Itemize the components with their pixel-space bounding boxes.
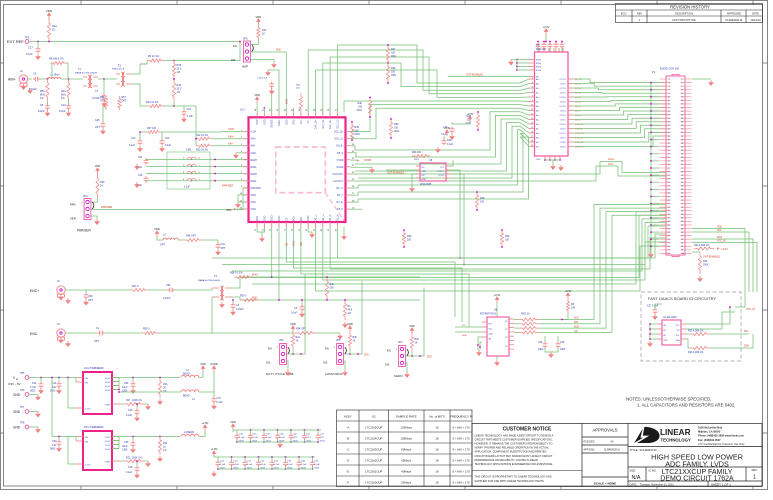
U3 input pins <box>529 78 535 80</box>
svg-text:JP3: JP3 <box>279 338 284 342</box>
resistor R54 OPT <box>296 331 316 334</box>
resistor R9 <box>140 63 147 65</box>
resistor R24 <box>412 154 430 157</box>
svg-text:SD1: SD1 <box>364 354 369 357</box>
svg-text:+3.3V: +3.3V <box>543 25 550 29</box>
svg-text:CF+: CF+ <box>300 119 303 124</box>
svg-text:EN: EN <box>325 347 329 351</box>
svg-text:1: 1 <box>241 45 242 47</box>
inductor L3 BEAD <box>181 434 199 436</box>
svg-text:GND: GND <box>307 215 310 221</box>
P1 top right ground <box>692 78 711 80</box>
net +1.8V from L3 <box>199 431 205 437</box>
svg-text:EN78: EN78 <box>536 70 542 72</box>
net VDD lvds jumper <box>348 326 351 332</box>
U8 address pins to ground <box>478 337 482 350</box>
resistor R1b 1K <box>257 25 260 40</box>
svg-text:0.01uF: 0.01uF <box>29 88 37 91</box>
svg-text:EN12: EN12 <box>536 60 542 62</box>
capacitor C10 <box>68 101 70 104</box>
connector J1 AIN+ <box>19 75 27 83</box>
jumper JP2 PAR SER <box>84 199 91 220</box>
svg-text:SCK: SCK <box>574 317 579 320</box>
ground R1b <box>159 399 161 401</box>
svg-text:0.01uF: 0.01uF <box>163 297 171 300</box>
svg-text:OPT: OPT <box>100 100 105 103</box>
svg-text:97: 97 <box>668 250 670 252</box>
svg-text:40: 40 <box>681 146 683 148</box>
ground T3 center tap <box>221 302 223 304</box>
resistor R1b <box>158 378 161 399</box>
svg-text:U3: U3 <box>536 43 540 47</box>
resistor R59 on ENC- line <box>241 298 259 301</box>
ground J1 <box>23 84 25 86</box>
svg-text:CF-: CF- <box>307 119 310 123</box>
wires REFH REFL into U2 pins 5-8 <box>146 158 249 160</box>
svg-text:A7-: A7- <box>536 146 539 149</box>
svg-text:FAST DAACS BOARD ID CIRCUITRY: FAST DAACS BOARD ID CIRCUITRY <box>648 296 716 301</box>
ground R26 <box>699 276 701 278</box>
svg-text:SIZE: SIZE <box>630 469 636 473</box>
svg-text:38: 38 <box>681 143 683 145</box>
assembly options table <box>337 410 473 487</box>
wire T1 secondary <box>98 78 117 80</box>
ground C7 <box>103 101 105 103</box>
ground caps C36b C39 <box>545 348 551 352</box>
svg-text:70: 70 <box>681 200 683 202</box>
svg-text:D4_5-: D4_5- <box>337 208 344 211</box>
svg-text:OUT3+: OUT3+ <box>559 97 566 99</box>
svg-text:1206: 1206 <box>122 449 128 452</box>
svg-text:OUT1-: OUT1- <box>560 84 566 86</box>
capacitor C60 OPT <box>65 289 80 291</box>
svg-text:OUT2-: OUT2- <box>560 93 566 95</box>
svg-text:42: 42 <box>681 150 683 152</box>
svg-text:R43 86.6 1%: R43 86.6 1% <box>49 58 64 61</box>
svg-text:100K: 100K <box>703 264 709 267</box>
wire U2 top bus <box>263 108 265 112</box>
ground C3 <box>301 312 303 314</box>
net +3.3V above U8 <box>495 297 498 303</box>
svg-text:A1-: A1- <box>536 92 539 95</box>
svg-text:1. ALL CAPACITORS AND RESISTO: 1. ALL CAPACITORS AND RESISTORS ARE 0402… <box>637 403 735 408</box>
svg-text:0201: 0201 <box>357 109 363 112</box>
svg-text:VIN: VIN <box>85 442 89 444</box>
svg-text:5 < AIN < 170: 5 < AIN < 170 <box>452 459 470 463</box>
svg-text:VDD: VDD <box>290 322 296 326</box>
svg-text:5 < AIN < 170: 5 < AIN < 170 <box>452 470 470 474</box>
svg-text:CLKOUT-: CLKOUT- <box>333 180 344 183</box>
svg-text:DESCRIPTION: DESCRIPTION <box>675 12 693 16</box>
svg-text:GND: GND <box>251 194 257 197</box>
wire EXT REF rail <box>29 41 240 43</box>
capacitor C54 <box>131 382 136 389</box>
svg-text:Fax: (408)434-0507: Fax: (408)434-0507 <box>698 438 721 442</box>
svg-text:C19 2.2uF: C19 2.2uF <box>257 78 268 80</box>
svg-text:-D: -D <box>346 459 349 463</box>
resistor R2a <box>694 247 714 250</box>
wire U3 to P1 bus <box>574 79 667 83</box>
capacitor C13 <box>161 132 163 139</box>
ground U2 bottom right <box>343 227 345 234</box>
svg-text:HOWEVER, IT REMAINS THE CUSTOM: HOWEVER, IT REMAINS THE CUSTOMER'S RESPO… <box>475 442 553 446</box>
svg-text:VOUT: VOUT <box>105 378 112 380</box>
svg-text:FIN1108: FIN1108 <box>536 47 546 51</box>
wire JP5 pin2 SD0 to U2 SDO pin <box>250 52 286 112</box>
svg-text:0.1uF: 0.1uF <box>291 312 298 315</box>
svg-text:VOUT: VOUT <box>105 449 112 451</box>
svg-text:Tuesday, November 01, 2011: Tuesday, November 01, 2011 <box>640 482 674 486</box>
Linear Technology logo <box>634 427 659 443</box>
svg-text:0603: 0603 <box>30 390 36 393</box>
svg-text:9: 9 <box>532 100 533 102</box>
svg-text:60: 60 <box>681 182 683 184</box>
ground U2 bottom pin 20 <box>308 227 312 232</box>
svg-text:OPT: OPT <box>160 244 165 247</box>
U3 top pins <box>538 48 540 52</box>
svg-text:1K: 1K <box>52 28 55 32</box>
svg-text:29: 29 <box>668 129 670 131</box>
svg-text:VREF: VREF <box>278 119 281 126</box>
svg-text:D8_9+: D8_9+ <box>336 145 344 148</box>
svg-text:AIN+: AIN+ <box>251 138 257 141</box>
svg-text:7: 7 <box>669 89 670 91</box>
svg-text:R22: R22 <box>126 457 131 460</box>
svg-text:SDI: SDI <box>574 321 578 324</box>
svg-text:GND: GND <box>13 393 21 397</box>
svg-text:23: 23 <box>668 118 670 120</box>
svg-text:LTC2163CUP: LTC2163CUP <box>365 448 382 452</box>
svg-text:R37 100: R37 100 <box>147 127 157 130</box>
capacitor C5b <box>131 441 136 448</box>
capacitor C24 <box>39 382 44 389</box>
wire AIN- into U2 pin 3 <box>212 145 249 147</box>
svg-text:REVISION HISTORY: REVISION HISTORY <box>670 5 710 10</box>
svg-text:VIN: VIN <box>85 437 89 439</box>
svg-text:0.1uF: 0.1uF <box>126 471 133 474</box>
svg-text:69: 69 <box>668 200 670 202</box>
svg-text:RSET: RSET <box>105 462 111 464</box>
svg-text:C21: C21 <box>138 156 143 159</box>
svg-text:+1.8V: +1.8V <box>211 447 218 451</box>
svg-text:1K: 1K <box>262 33 265 36</box>
svg-text:27: 27 <box>668 125 670 127</box>
svg-text:A3-: A3- <box>536 110 539 113</box>
wire to T3 <box>148 289 168 291</box>
U8 right pins <box>509 318 514 320</box>
svg-text:100: 100 <box>330 287 335 290</box>
svg-text:72: 72 <box>681 203 683 205</box>
svg-text:D6_7-: D6_7- <box>337 194 344 197</box>
net ENC- into U2 <box>278 227 280 300</box>
svg-text:+2.5V: +2.5V <box>467 112 474 116</box>
net OVDD from L4 <box>199 372 214 392</box>
svg-text:1: 1 <box>753 475 756 481</box>
svg-text:C60: C60 <box>88 295 93 298</box>
svg-text:57: 57 <box>668 178 670 180</box>
wire ENC- return <box>158 332 212 334</box>
svg-text:JP2: JP2 <box>83 194 88 198</box>
svg-text:C36: C36 <box>538 341 543 344</box>
svg-text:SCK: SCK <box>293 241 296 246</box>
wire SCL SDA into U8 <box>455 326 482 328</box>
svg-text:8: 8 <box>532 96 533 98</box>
wire L1 to T1 <box>61 78 83 80</box>
svg-text:81: 81 <box>668 221 670 223</box>
svg-text:0.1uF: 0.1uF <box>126 414 133 417</box>
resistor R17 RSET <box>119 403 124 405</box>
svg-text:D10_11-: D10_11- <box>335 138 344 141</box>
resistor R1 49.9 <box>343 300 346 320</box>
svg-text:9: 9 <box>669 93 670 95</box>
svg-text:CLK-: CLK- <box>608 163 614 166</box>
svg-text:EN34: EN34 <box>536 63 542 65</box>
svg-text:47: 47 <box>668 161 670 163</box>
svg-text:SCL: SCL <box>744 330 749 333</box>
svg-text:GND: GND <box>422 171 427 173</box>
svg-text:12: 12 <box>681 97 683 99</box>
svg-text:33pF: 33pF <box>560 348 566 351</box>
svg-text:L1 39nH: L1 39nH <box>50 74 60 77</box>
svg-text:85: 85 <box>668 228 670 230</box>
svg-text:96: 96 <box>681 246 683 248</box>
capacitor C36b <box>543 342 548 349</box>
svg-text:33: 33 <box>668 136 670 138</box>
svg-text:LINEAR: LINEAR <box>660 428 691 437</box>
svg-text:64: 64 <box>681 189 683 191</box>
svg-text:REFH: REFH <box>251 173 258 176</box>
resistor R13 <box>196 144 212 147</box>
svg-text:100K 1%: 100K 1% <box>132 399 143 402</box>
svg-text:4: 4 <box>532 78 533 80</box>
svg-text:JP5: JP5 <box>243 37 248 41</box>
svg-text:EN: EN <box>268 347 272 351</box>
svg-text:PAR/SER: PAR/SER <box>222 183 233 187</box>
wire U2 top D14/D12 pairs to U3 upper pins <box>337 45 520 112</box>
svg-text:OUT-ENABLE1: OUT-ENABLE1 <box>703 256 721 259</box>
svg-text:GND: GND <box>13 410 21 414</box>
svg-text:R2a 4.99K 1%: R2a 4.99K 1% <box>694 244 710 247</box>
svg-text:A6-: A6- <box>536 137 539 140</box>
svg-text:TP8: TP8 <box>20 422 25 425</box>
wire RN2 outputs <box>514 319 519 321</box>
svg-text:78: 78 <box>681 214 683 216</box>
svg-text:0.1uF: 0.1uF <box>129 144 136 147</box>
svg-text:OUT8+: OUT8+ <box>559 142 566 144</box>
svg-text:17: 17 <box>668 107 670 109</box>
svg-text:R13 10 1%: R13 10 1% <box>196 149 209 152</box>
transformer T1 <box>88 75 90 88</box>
U2 exposed pad dashed <box>276 147 326 193</box>
svg-text:ENC+: ENC+ <box>30 289 39 293</box>
net VDD top-left <box>47 13 50 19</box>
svg-text:99: 99 <box>668 253 670 255</box>
svg-text:8: 8 <box>681 89 682 91</box>
ground C10 <box>68 111 70 113</box>
svg-text:EN: EN <box>387 349 391 353</box>
wire U2 right data staircase to U3 lower pins <box>355 112 520 150</box>
svg-text:U2 *: U2 * <box>240 108 247 112</box>
svg-text:10/13/10: 10/13/10 <box>750 18 761 22</box>
svg-text:EDGE-CON 100: EDGE-CON 100 <box>660 67 680 71</box>
svg-text:16: 16 <box>435 459 439 463</box>
wire decap rail 2 <box>214 456 315 458</box>
svg-text:+1.8V: +1.8V <box>202 421 209 425</box>
svg-text:0.1uF: 0.1uF <box>247 464 253 466</box>
jumper JP5 NAP <box>244 41 251 62</box>
svg-text:PAR/SER: PAR/SER <box>77 229 91 233</box>
ground rail decap 2 <box>218 468 313 470</box>
svg-text:68: 68 <box>681 196 683 198</box>
ground C61 <box>217 250 219 252</box>
capacitor C6 <box>28 78 32 80</box>
svg-text:VDD: VDD <box>256 216 259 221</box>
svg-text:VIN: VIN <box>85 378 89 380</box>
svg-text:87: 87 <box>668 232 670 234</box>
svg-text:19: 19 <box>531 145 533 147</box>
svg-text:0201: 0201 <box>414 159 420 161</box>
svg-text:VCM: VCM <box>251 131 256 134</box>
resistor R22 RSET <box>119 460 124 462</box>
svg-text:OUT8-: OUT8- <box>560 147 566 149</box>
svg-text:DIS: DIS <box>266 361 271 365</box>
U2 top pins <box>256 112 258 117</box>
svg-text:SENSE: SENSE <box>271 119 274 128</box>
svg-text:D4_5+: D4_5+ <box>336 201 344 204</box>
svg-text:98: 98 <box>681 250 683 252</box>
svg-text:WBC4-6TLB: WBC4-6TLB <box>112 69 125 71</box>
svg-text:SDA: SDA <box>744 345 749 348</box>
ground C21 <box>136 164 138 166</box>
svg-text:LTC2160CUP: LTC2160CUP <box>365 481 382 485</box>
ground U6 <box>412 174 416 186</box>
svg-text:U5 LT3080EDD: U5 LT3080EDD <box>84 425 104 429</box>
svg-text:11: 11 <box>531 109 533 111</box>
ground C40a <box>437 147 439 149</box>
svg-text:5 < AIN < 170: 5 < AIN < 170 <box>452 437 470 441</box>
svg-text:ADC FAMILY, LVDS: ADC FAMILY, LVDS <box>665 459 729 468</box>
resistor R25 <box>686 333 690 335</box>
svg-text:45: 45 <box>668 157 670 159</box>
svg-text:SCK: SCK <box>293 216 296 221</box>
IC U1 24LC025 body <box>662 320 681 345</box>
svg-text:VDD: VDD <box>347 322 353 326</box>
svg-text:OPT: OPT <box>94 340 99 343</box>
svg-text:+3.3V: +3.3V <box>721 247 728 251</box>
resistor R21 <box>158 437 161 456</box>
wire U6 outputs <box>450 170 460 258</box>
svg-text:0.1uF: 0.1uF <box>239 437 245 439</box>
svg-text:C17: C17 <box>28 46 33 50</box>
svg-text:FREQUENCY R: FREQUENCY R <box>450 415 473 419</box>
svg-text:5 < AIN < 170: 5 < AIN < 170 <box>452 481 470 485</box>
svg-text:C5b: C5b <box>124 441 129 444</box>
P1 right pin stubs <box>681 79 692 253</box>
svg-text:SDO: SDO <box>574 326 579 329</box>
svg-text:VOUT: VOUT <box>105 441 112 443</box>
svg-text:DIS: DIS <box>231 58 236 62</box>
title block outline <box>472 424 762 487</box>
svg-text:49: 49 <box>668 164 670 166</box>
svg-text:OUT5+: OUT5+ <box>559 115 566 117</box>
capacitor C15 <box>145 176 147 177</box>
svg-text:73: 73 <box>668 207 670 209</box>
svg-text:37: 37 <box>668 143 670 145</box>
svg-text:SER: SER <box>70 217 76 221</box>
svg-text:OUT-ENABLE1: OUT-ENABLE1 <box>387 172 405 175</box>
svg-text:15: 15 <box>531 127 533 129</box>
svg-text:0603: 0603 <box>314 468 320 470</box>
ground C37 <box>213 404 215 406</box>
svg-text:THIS CIRCUIT IS PROPRIETARY TO: THIS CIRCUIT IS PROPRIETARY TO LINEAR TE… <box>475 475 552 479</box>
SPI nets CS SCK SDI below U2 <box>286 227 455 317</box>
svg-text:74: 74 <box>681 207 683 209</box>
svg-text:AIN-: AIN- <box>228 141 233 145</box>
svg-text:65: 65 <box>668 193 670 195</box>
ground C5b <box>132 447 134 449</box>
svg-text:16: 16 <box>435 426 439 430</box>
ground C27 <box>654 314 656 316</box>
resistor R26 <box>698 252 701 274</box>
svg-text:1: 1 <box>396 349 397 351</box>
svg-text:DIS: DIS <box>323 361 328 365</box>
pull resistor R28 on bus <box>475 192 478 210</box>
svg-text:8.2pF: 8.2pF <box>59 110 66 113</box>
svg-text:SUPPLIED FOR USE WITH LINEAR T: SUPPLIED FOR USE WITH LINEAR TECHNOLOGY … <box>475 479 545 483</box>
svg-text:D12_13+: D12_13+ <box>329 119 332 129</box>
wire VCC nets in DAACS <box>686 307 730 324</box>
svg-text:26: 26 <box>681 122 683 124</box>
svg-text:89: 89 <box>668 235 670 237</box>
wire R6 to bus <box>562 313 568 320</box>
svg-text:PERFORMANCE OR RELIABILITY. C: PERFORMANCE OR RELIABILITY. CONTACT LINE… <box>475 458 538 462</box>
svg-text:-B: -B <box>346 437 349 441</box>
P1 left pin stubs <box>660 79 671 253</box>
svg-text:OUT4+: OUT4+ <box>559 106 566 108</box>
svg-text:11: 11 <box>668 97 670 99</box>
resistor R56 OPT <box>104 96 107 110</box>
ground below C17 <box>37 54 39 56</box>
svg-text:JP4: JP4 <box>398 340 403 344</box>
svg-text:R9 10 1%: R9 10 1% <box>148 55 160 58</box>
svg-text:VOUT: VOUT <box>105 437 112 439</box>
svg-text:0.1uF: 0.1uF <box>301 464 307 466</box>
svg-text:10: 10 <box>531 105 533 107</box>
svg-text:58: 58 <box>681 178 683 180</box>
ground J3 <box>60 338 62 340</box>
svg-text:REFH: REFH <box>251 159 258 162</box>
svg-text:86: 86 <box>681 228 683 230</box>
svg-text:C13: C13 <box>165 137 170 140</box>
svg-text:OPT: OPT <box>95 126 100 129</box>
pull resistor R50b <box>389 119 392 138</box>
svg-text:18: 18 <box>681 107 683 109</box>
svg-text:R58 0.1 1%: R58 0.1 1% <box>230 272 243 275</box>
svg-text:GND: GND <box>293 119 296 125</box>
resistor R33 pullup <box>299 93 302 112</box>
U8 left pins <box>482 321 487 323</box>
svg-text:VOUT: VOUT <box>105 382 112 384</box>
svg-text:GND: GND <box>263 215 266 221</box>
pull resistor R48 <box>386 63 389 83</box>
svg-text:100: 100 <box>407 239 412 242</box>
svg-text:DATE:: DATE: <box>630 482 638 486</box>
wire T2 to divider network <box>131 64 140 74</box>
svg-text:31: 31 <box>668 132 670 134</box>
svg-text:56: 56 <box>681 175 683 177</box>
svg-text:8.2pF: 8.2pF <box>38 110 45 113</box>
svg-text:+3.3V: +3.3V <box>494 293 501 297</box>
